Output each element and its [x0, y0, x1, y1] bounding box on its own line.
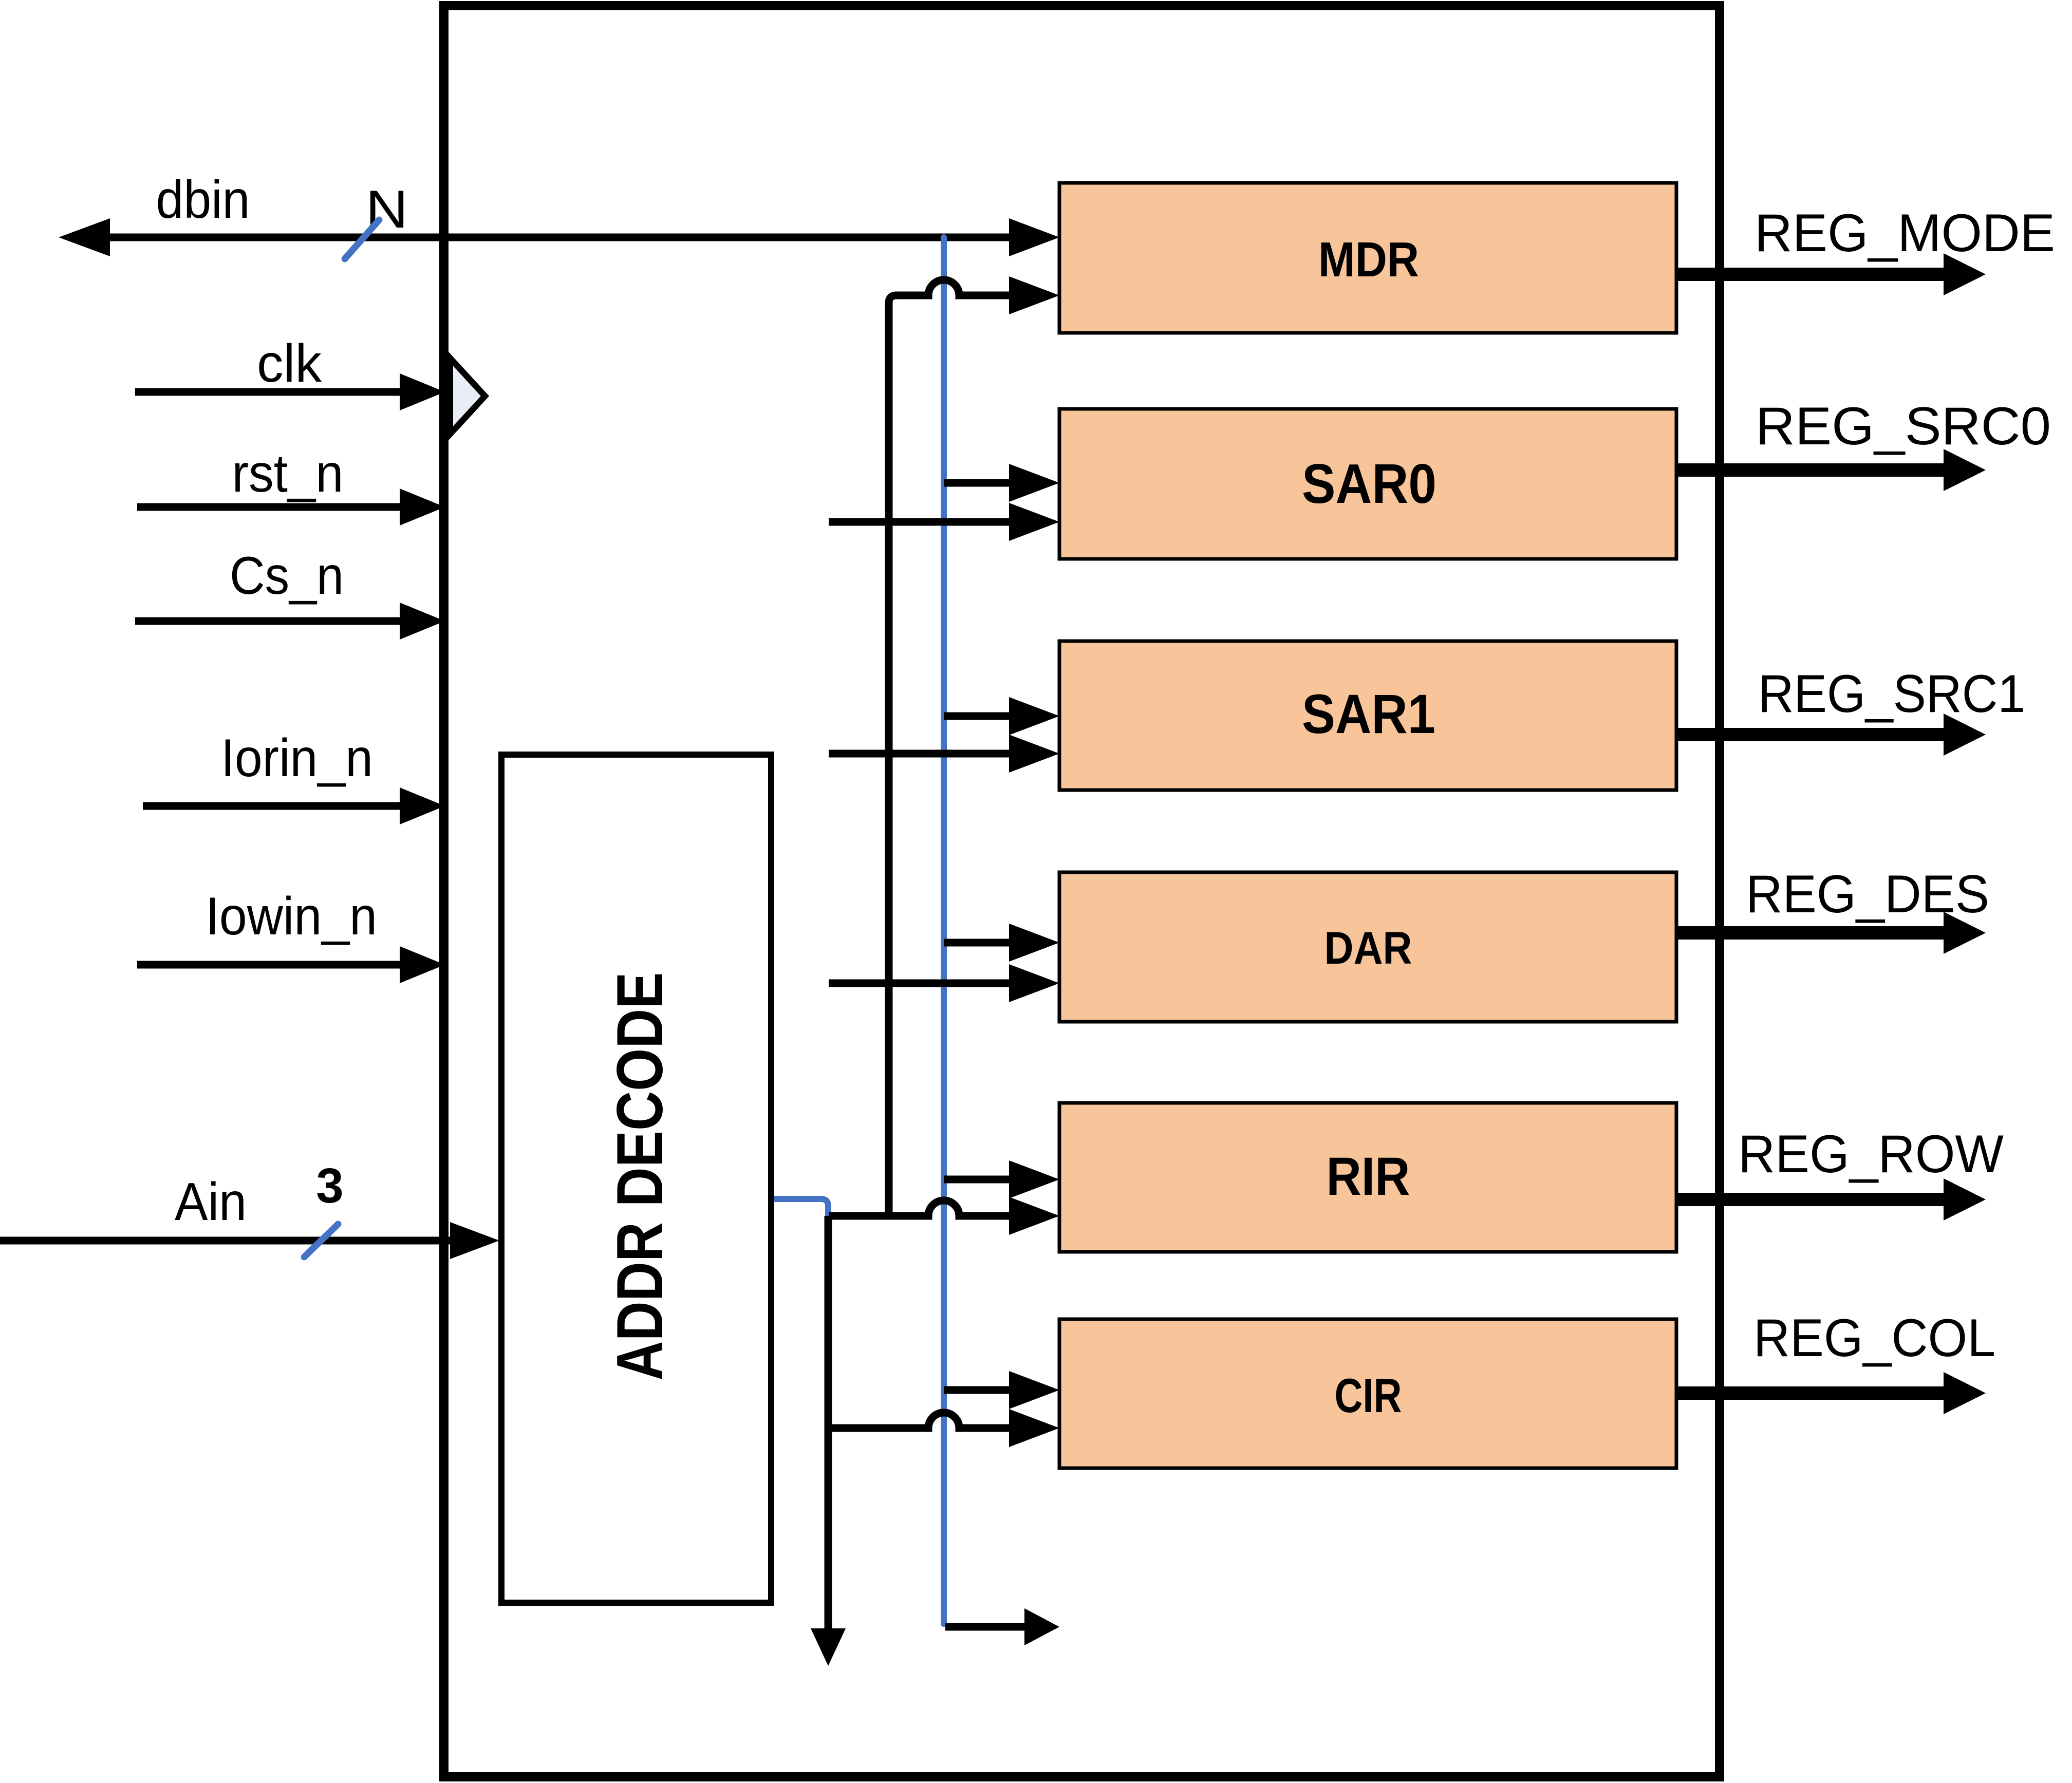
svg-text:clk: clk [257, 334, 322, 393]
arrowhead REG_ROW [1944, 1178, 1986, 1221]
arrowhead down at bottom of select bus [811, 1628, 846, 1666]
arrowhead Iorin_n [400, 787, 445, 824]
wire Iorin_n [143, 802, 406, 810]
arrowhead into DAR input 2 [1009, 964, 1059, 1002]
register SAR1 [1059, 641, 1676, 790]
svg-text:3: 3 [316, 1158, 343, 1213]
svg-text:MDR: MDR [1318, 232, 1419, 287]
arrowhead into SAR1 input 2 [1009, 735, 1059, 773]
svg-text:Cs_n: Cs_n [230, 546, 344, 606]
svg-text:ADDR DECODE: ADDR DECODE [603, 972, 676, 1381]
svg-text:SAR1: SAR1 [1302, 683, 1435, 745]
wire DAR input 2 [829, 980, 1009, 987]
arrowhead into RIR input 1 [1009, 1160, 1059, 1198]
wire SAR1 input 1 from blue bus [944, 712, 1009, 720]
wire REG_DES output [1676, 926, 1947, 940]
svg-text:REG_DES: REG_DES [1746, 865, 1989, 924]
arrowhead Cs_n [400, 603, 445, 640]
arrowhead into SAR0 input 1 [1009, 464, 1059, 502]
arrowhead REG_DES [1944, 912, 1986, 954]
arrowhead into SAR1 input 1 [1009, 697, 1059, 735]
svg-text:Ain: Ain [175, 1172, 247, 1232]
bus-width slash on dbin (blue) [345, 220, 379, 259]
wire DAR input 1 from blue bus [944, 939, 1009, 947]
svg-text:REG_COL: REG_COL [1753, 1308, 1995, 1368]
svg-text:rst_n: rst_n [232, 444, 344, 503]
wire RIR input 2 with hop over blue bus [829, 1200, 1009, 1216]
wire Ain [0, 1237, 454, 1245]
wire CIR input 2 with hop over blue bus [829, 1413, 1009, 1428]
svg-text:Iowin_n: Iowin_n [206, 887, 377, 946]
register SAR0 [1059, 409, 1676, 559]
register CIR [1059, 1319, 1676, 1468]
arrowhead Iowin_n [400, 946, 445, 983]
arrowhead into DAR input 1 [1009, 924, 1059, 962]
svg-text:SAR0: SAR0 [1302, 453, 1436, 515]
arrowhead REG_MODE [1944, 253, 1986, 295]
blue data bus vertical [941, 237, 947, 1624]
svg-text:DAR: DAR [1324, 922, 1412, 973]
wire MDR input 2 with hop over blue bus [895, 280, 1009, 295]
black select bus vertical A [889, 295, 897, 1216]
arrowhead into SAR0 input 2 [1009, 503, 1059, 541]
arrowhead into CIR input 2 [1009, 1409, 1059, 1447]
svg-text:CIR: CIR [1335, 1368, 1402, 1422]
black select bus vertical B (down to arrow) [825, 1216, 832, 1629]
wire SAR0 input 1 from blue bus [944, 479, 1009, 487]
wire CIR input 1 from blue bus [944, 1386, 1009, 1394]
wire REG_SRC0 output [1676, 463, 1947, 477]
arrowhead REG_COL [1944, 1372, 1986, 1414]
svg-text:RIR: RIR [1327, 1147, 1410, 1207]
register RIR [1059, 1103, 1676, 1252]
bus-width slash on Ain (blue) [304, 1224, 338, 1257]
wire Iowin_n [137, 961, 406, 969]
register MDR [1059, 183, 1676, 333]
blue wire from ADDR DECODE output [771, 1199, 828, 1218]
wire SAR1 input 2 [829, 750, 1009, 758]
wire RIR input 1 from blue bus [944, 1176, 1009, 1184]
svg-text:REG_SRC0: REG_SRC0 [1756, 397, 2051, 456]
wire Cs_n [135, 617, 406, 625]
svg-text:REG_ROW: REG_ROW [1738, 1124, 2004, 1184]
arrowhead REG_SRC1 [1944, 714, 1986, 756]
wire bottom data bus stub arrow [945, 1623, 1024, 1631]
wire SAR0 input 2 [829, 518, 1009, 526]
clock input triangle symbol [450, 358, 485, 434]
arrowhead REG_SRC0 [1944, 449, 1986, 491]
arrowhead clk [400, 373, 445, 410]
svg-text:REG_MODE: REG_MODE [1754, 203, 2055, 263]
wire REG_COL output [1676, 1386, 1947, 1400]
arrowhead Ain into ADDR DECODE [450, 1222, 499, 1259]
arrowhead into RIR input 2 [1009, 1197, 1059, 1235]
svg-text:REG_SRC1: REG_SRC1 [1758, 664, 2025, 724]
arrowhead bottom data stub [1024, 1608, 1059, 1645]
wire REG_ROW output [1676, 1193, 1947, 1206]
wire rst_n [137, 503, 406, 511]
arrowhead into CIR input 1 [1009, 1371, 1059, 1409]
arrowhead dbin left [59, 218, 110, 256]
register DAR [1059, 872, 1676, 1022]
outer module box [444, 6, 1720, 1777]
svg-text:dbin: dbin [156, 170, 250, 230]
arrowhead rst_n [400, 489, 445, 525]
arrowhead into MDR input 2 [1009, 276, 1059, 314]
wire dbin horizontal (MDR data input) [105, 234, 1009, 241]
svg-text:Iorin_n: Iorin_n [221, 728, 373, 788]
arrowhead into MDR input 1 [1009, 218, 1059, 256]
ADDR DECODE block [501, 755, 771, 1603]
wire REG_MODE output [1676, 268, 1947, 281]
wire REG_SRC1 output [1676, 728, 1947, 741]
wire clk [135, 388, 406, 396]
